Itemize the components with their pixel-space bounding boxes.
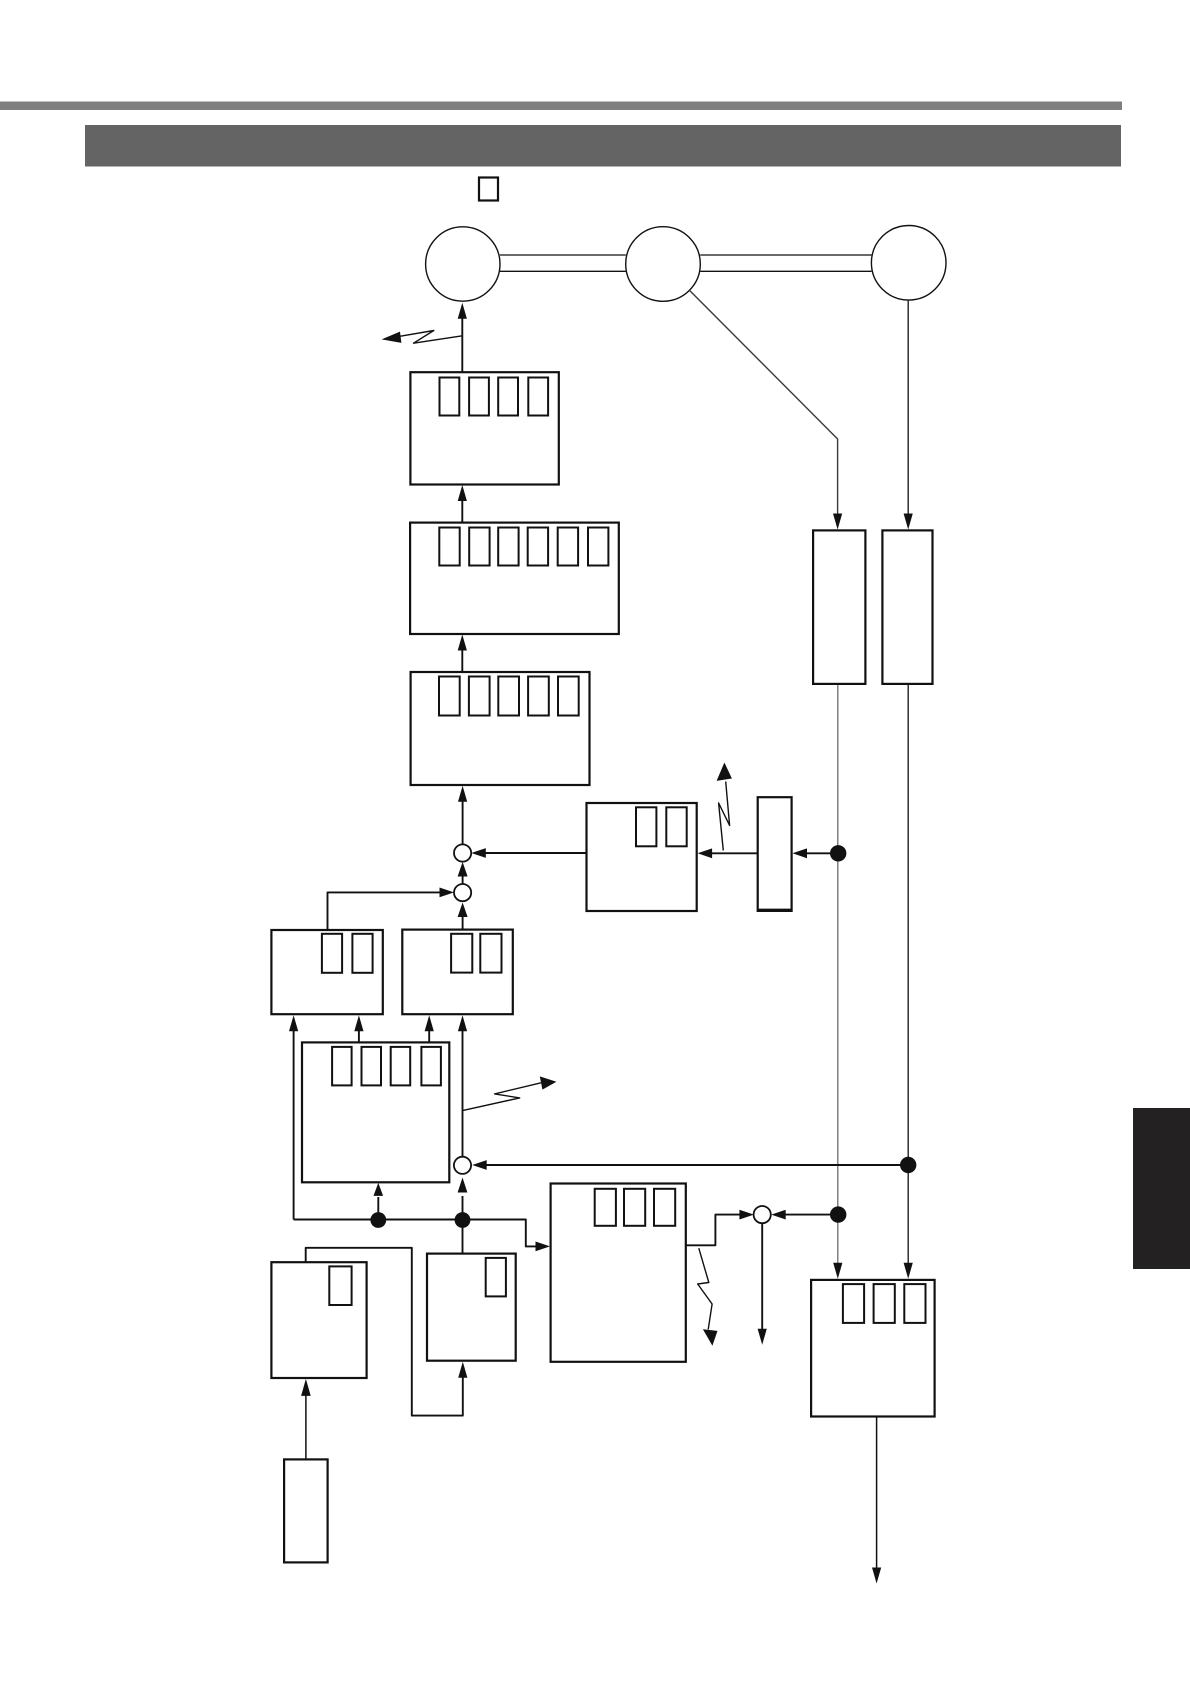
node n2 (open junction) <box>454 884 471 901</box>
wire: big box G to pair box PR (stub arrow) <box>428 1030 430 1042</box>
wire: diagonal from station 2 to tall box A <box>689 290 837 516</box>
box BR2 label glyphs <box>843 1284 864 1323</box>
wire: bus riser to pair box PL <box>293 1030 295 1220</box>
box BR2 (3 glyphs) <box>811 1280 935 1417</box>
wire: big box G to pair box PL (stub arrow) <box>358 1030 360 1042</box>
narrow box N thick bottom edge <box>758 908 792 910</box>
wire: box BL loop to box BM (under path) <box>306 1248 463 1416</box>
big box G (4 glyphs) <box>302 1042 449 1182</box>
junction dot d1 on bus <box>370 1212 386 1228</box>
pair box PR (2 glyphs) <box>402 930 513 1015</box>
wire: pair box PL top riser to node n2 <box>328 892 442 929</box>
bus wire across y=1219.5 with turn into box BR1 <box>294 1220 537 1247</box>
box BL (1 glyph) <box>271 1262 366 1378</box>
box B2 label glyphs <box>439 528 459 566</box>
rail B continuation below tall box B <box>907 684 909 1267</box>
pair box PR label glyphs <box>451 934 472 973</box>
lightning reference arrow L3 (points down) <box>698 1248 712 1329</box>
box B3 (5 glyphs) <box>411 672 590 785</box>
mid box M (2 glyphs) <box>587 803 697 911</box>
narrow box N <box>758 797 792 911</box>
rail A continuation below tall box A (gray) <box>837 684 839 1267</box>
wire: rail B dot d4 to node n3 <box>487 1164 909 1166</box>
index tab (black, page edge) <box>1133 1108 1190 1269</box>
wire: node n2 to node n1 <box>462 876 464 885</box>
pair box PL label glyphs <box>322 934 342 973</box>
wire: vertical from station 3 to tall box B <box>907 300 909 516</box>
wire: dot d3 to node n4 <box>785 1214 838 1216</box>
wire: box BR2 downward open arrow <box>876 1417 878 1571</box>
squiggle reference arrow S2 (points right) <box>463 1083 542 1111</box>
box B3 label glyphs <box>439 677 460 716</box>
pair box PL (2 glyphs) <box>271 930 382 1014</box>
tall box B <box>882 530 932 684</box>
wire: node n4 downward open arrow <box>761 1223 763 1331</box>
header rule <box>0 102 1122 111</box>
wire: node n3 up to pair box PR <box>462 1030 464 1157</box>
box B2 (6 glyphs) <box>410 523 619 634</box>
station circle 3 <box>871 225 946 300</box>
wire: dot d2 down to box BM top <box>462 1220 464 1254</box>
wire: pair box PR to node n2 <box>462 915 464 930</box>
wire: node n1 to box B3 <box>462 800 464 846</box>
box BM (1 glyph) <box>427 1254 516 1361</box>
node n4 (open junction) <box>754 1206 771 1223</box>
wire: box B1 to station circle 1 <box>461 316 463 373</box>
wire: box B2 to box B1 <box>461 499 463 523</box>
mid box M label glyphs <box>636 807 656 846</box>
wire: box B3 to box B2 <box>461 649 463 673</box>
lightning reference arrow L1 (points up) <box>719 782 730 851</box>
wire: mid box M to node n1 <box>486 852 587 854</box>
junction dot d2 on bus <box>455 1212 471 1228</box>
node n3 (open junction) <box>454 1157 471 1174</box>
box BR1 label glyphs <box>595 1189 616 1226</box>
tall box A <box>813 530 865 684</box>
station circle 2 <box>626 227 701 302</box>
junction dot on rail A at y=853 <box>830 845 846 861</box>
double link circle1-circle2 <box>500 254 626 256</box>
wire: rail A dot to narrow box N <box>807 852 839 854</box>
box BR1 (3 glyphs) <box>551 1184 686 1362</box>
box B1 label glyphs <box>440 378 460 416</box>
big box G label glyphs <box>332 1047 352 1086</box>
wire: dot d1 to big box G bottom <box>377 1197 379 1220</box>
wire: narrow box N to mid box M <box>712 852 758 854</box>
box B1 (top process box, 4 glyphs) <box>410 372 558 484</box>
wire: box BR1 right edge to node n4 <box>686 1215 741 1246</box>
small box SB <box>284 1459 328 1562</box>
legend checkbox <box>479 178 498 201</box>
junction dot d3 on rail A at y=1214.6 <box>830 1206 846 1222</box>
squiggle reference arrow S1 (points left) <box>401 331 463 344</box>
double link circle2-circle3 <box>700 254 871 256</box>
wire: small box SB to box BL <box>305 1395 307 1460</box>
node n1 (open junction) <box>454 844 471 861</box>
wire: junction dot d2 up to node n3 <box>462 1196 464 1220</box>
box BM label glyph <box>486 1258 506 1297</box>
box BL label glyph <box>329 1266 351 1305</box>
junction dot d4 on rail B at y=1165 <box>900 1157 916 1173</box>
station circle 1 <box>426 227 500 301</box>
title banner <box>85 125 1121 167</box>
